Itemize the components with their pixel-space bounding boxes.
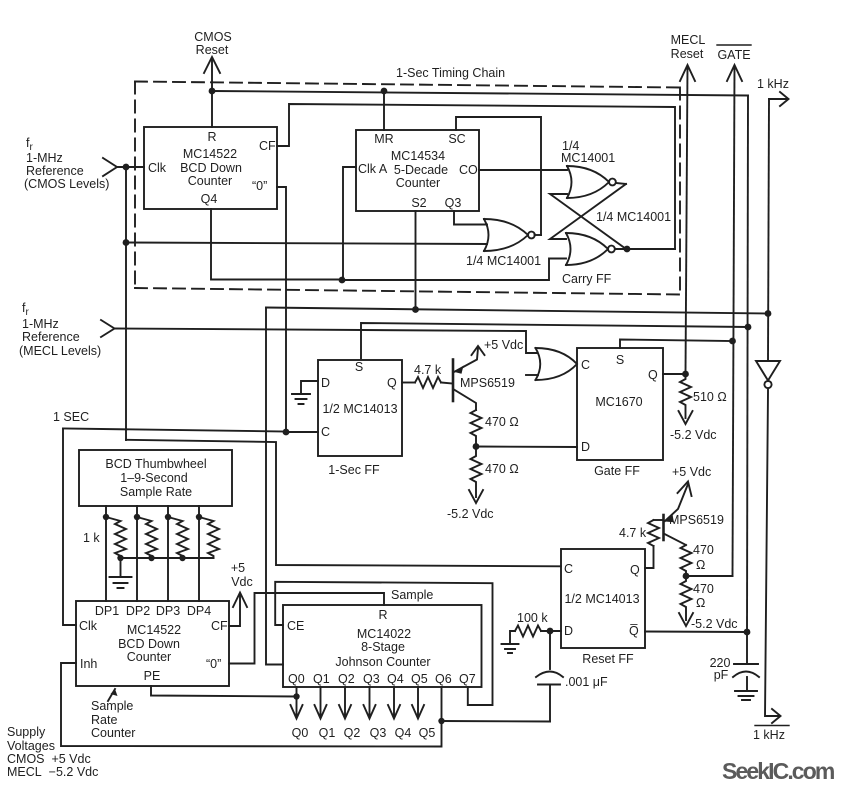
svg-text:Q4: Q4 xyxy=(395,726,412,740)
svg-text:Q: Q xyxy=(630,563,640,577)
svg-text:S2: S2 xyxy=(411,196,426,210)
svg-text:Q7: Q7 xyxy=(459,672,476,686)
svg-text:Vdc: Vdc xyxy=(231,575,253,589)
wire thumbwheel DP2 xyxy=(136,506,138,601)
svg-text:Clk A: Clk A xyxy=(358,162,388,176)
svg-text:Ω: Ω xyxy=(696,596,705,610)
node carry FF output xyxy=(624,246,631,253)
transistor Q2 collector xyxy=(665,534,687,545)
node bus R1 xyxy=(117,555,123,561)
transistor Q2 emitter with +5 arrow xyxy=(665,484,688,521)
svg-text:Q5: Q5 xyxy=(411,672,428,686)
resistor R3 470 ohm lower xyxy=(471,447,482,498)
wire output arrow Q1 xyxy=(315,687,327,719)
svg-text:Johnson Counter: Johnson Counter xyxy=(335,655,430,669)
svg-text:Supply: Supply xyxy=(7,725,46,739)
transistor Q1 MPS6519 base bar xyxy=(452,360,455,402)
svg-text:Gate FF: Gate FF xyxy=(594,464,640,478)
wire Q6 node to .001uF xyxy=(442,720,551,723)
wire GATE arrowhead xyxy=(727,65,742,81)
node DP4 tap xyxy=(196,514,202,520)
svg-text:MC14522: MC14522 xyxy=(183,147,237,161)
node gate2 line tap xyxy=(123,239,130,246)
svg-text:Q3: Q3 xyxy=(370,726,387,740)
wire gate1 output xyxy=(616,183,626,184)
svg-text:1/4 MC14001: 1/4 MC14001 xyxy=(466,254,541,268)
svg-text:C: C xyxy=(321,425,330,439)
svg-text:Q3: Q3 xyxy=(363,672,380,686)
resistor R8 470 ohm lower xyxy=(681,576,692,620)
svg-text:Q4: Q4 xyxy=(201,192,218,206)
svg-text:D: D xyxy=(321,376,330,390)
node 100k D .001uF xyxy=(547,628,554,635)
wire 1 kHz vertical to inverter xyxy=(768,99,769,361)
svg-text:C: C xyxy=(581,358,590,372)
svg-text:470 Ω: 470 Ω xyxy=(485,462,519,476)
wire long line to gate2 lower input xyxy=(126,243,487,245)
wire 4.7k to base xyxy=(441,383,452,384)
svg-text:MECL −5.2 Vdc: MECL −5.2 Vdc xyxy=(7,765,98,779)
wire node line A S2 to 1kHz tap xyxy=(266,308,768,314)
node 470 divider D xyxy=(473,443,480,450)
wire output arrow Q5 xyxy=(412,687,424,719)
arrowhead sample rate label xyxy=(111,689,118,696)
wire 1 kHz bottom arrowhead xyxy=(772,709,781,723)
node S line reset net xyxy=(745,324,752,331)
IC U3 1/2 MC14013 1-Sec FF box xyxy=(318,360,402,456)
resistor R1k-1 1 k xyxy=(106,517,126,558)
svg-text:CF: CF xyxy=(259,139,276,153)
svg-text:Sample: Sample xyxy=(91,699,133,713)
node DP3 tap xyxy=(165,514,171,520)
label arrow sample rate counter xyxy=(108,689,115,701)
svg-text:Q2: Q2 xyxy=(344,726,361,740)
wire 0 output to R of MC14022 xyxy=(229,593,384,664)
svg-text:Q̅: Q̅ xyxy=(629,624,639,638)
NOR gate G1 1/4 MC14001 top xyxy=(567,166,572,198)
ground symbol at 100k xyxy=(502,644,519,653)
wire cross couple gate1 out to gate3 in xyxy=(550,184,626,239)
capacitor C1 .001 uF xyxy=(549,631,551,669)
wire divider node to GATE vertical xyxy=(686,575,733,577)
wire CF to +5 Vdc arrow xyxy=(229,594,240,626)
svg-text:S: S xyxy=(616,353,624,367)
wire 1 SEC down to Clk xyxy=(63,429,76,626)
wire OR gate lower input stub xyxy=(526,374,538,376)
node Q MC1670 510 xyxy=(682,371,689,378)
svg-text:Reset: Reset xyxy=(671,47,704,61)
wire output arrow Q2 xyxy=(339,687,351,719)
svg-text:MPS6519: MPS6519 xyxy=(460,376,515,390)
svg-text:C: C xyxy=(564,562,573,576)
svg-text:+5 Vdc: +5 Vdc xyxy=(672,465,711,479)
wire ground to 100k xyxy=(510,631,515,644)
wire R pin to reset line xyxy=(211,91,213,127)
wire thumbwheel DP4 xyxy=(198,506,200,601)
wire bus to ground xyxy=(120,558,122,576)
IC U1 MC14522 BCD Down Counter box xyxy=(144,127,277,209)
wire CMOS reset arrowhead xyxy=(204,57,220,73)
svg-text:1 SEC: 1 SEC xyxy=(53,410,89,424)
svg-text:CMOS +5 Vdc: CMOS +5 Vdc xyxy=(7,752,91,766)
svg-text:Q3: Q3 xyxy=(445,196,462,210)
node GATE S MC1670 xyxy=(729,338,736,345)
svg-text:Q1: Q1 xyxy=(319,726,336,740)
svg-text:CE: CE xyxy=(287,619,304,633)
svg-text:510 Ω: 510 Ω xyxy=(693,390,727,404)
svg-text:“0”: “0” xyxy=(252,179,267,193)
svg-text:DP1: DP1 xyxy=(95,604,119,618)
wire 4.7k to Q pin xyxy=(645,546,654,568)
svg-text:Q0: Q0 xyxy=(292,726,309,740)
resistor R1k-4 1 k xyxy=(199,517,219,558)
resistor R1k-2 1 k xyxy=(137,517,157,558)
svg-text:Clk: Clk xyxy=(148,161,167,175)
svg-text:Counter: Counter xyxy=(188,174,232,188)
node Q0 PE xyxy=(293,693,299,699)
wire fr CMOS input fork xyxy=(103,158,117,176)
wire MECL jog down to Reset FF C xyxy=(126,440,561,567)
wire 0 pin down to node xyxy=(277,187,286,432)
node Q4 ClkA junction xyxy=(339,277,346,284)
node R reset xyxy=(209,88,216,95)
wire fr CMOS to Clk pin xyxy=(117,166,144,168)
svg-text:(MECL Levels): (MECL Levels) xyxy=(19,344,101,358)
svg-text:1-Sec FF: 1-Sec FF xyxy=(328,463,380,477)
wire SC up and right to gate2 output xyxy=(456,117,541,235)
inverter U5 triangle xyxy=(756,361,780,381)
NOR gate G3 1/4 MC14001 Carry FF xyxy=(566,233,571,265)
svg-text:DP4: DP4 xyxy=(187,604,211,618)
resistor R1k-3 1 k xyxy=(168,517,188,558)
wire Q-bar to right vertical xyxy=(645,631,747,634)
ground symbol at 1-Sec FF D xyxy=(292,394,310,404)
wire resistor bottom bus xyxy=(121,557,214,559)
svg-text:MC14522: MC14522 xyxy=(127,623,181,637)
svg-text:BCD Down: BCD Down xyxy=(118,637,180,651)
svg-text:1/4 MC14001: 1/4 MC14001 xyxy=(596,210,671,224)
svg-text:BCD Thumbwheel: BCD Thumbwheel xyxy=(105,457,206,471)
svg-text:MC14022: MC14022 xyxy=(357,627,411,641)
wire MC1670 S to GATE line xyxy=(620,340,733,349)
inverter U5 bubble xyxy=(764,381,771,388)
svg-text:BCD Down: BCD Down xyxy=(180,161,242,175)
wire line A down to Johnson C xyxy=(266,308,283,665)
wire -5.2 Vdc arrow below R3 xyxy=(469,490,483,503)
IC U2 MC14534 5-Decade Counter box xyxy=(356,130,479,211)
dashed box 1-Sec Timing Chain xyxy=(135,82,680,88)
svg-text:Clk: Clk xyxy=(79,619,98,633)
svg-text:Q: Q xyxy=(648,368,658,382)
svg-text:1 kHz: 1 kHz xyxy=(757,77,789,91)
wire PE down to Q0 xyxy=(151,686,297,697)
wire Q4 down and right xyxy=(211,209,342,280)
node bus R2 xyxy=(148,555,154,561)
ground symbol below 1k bank xyxy=(110,577,132,588)
svg-text:Reference: Reference xyxy=(26,164,84,178)
wire 1 SEC line xyxy=(63,429,286,432)
IC U8 1/2 MC14013 Reset FF box xyxy=(561,549,645,648)
svg-text:SeekIC.com: SeekIC.com xyxy=(722,758,835,784)
svg-text:Inh: Inh xyxy=(80,657,97,671)
svg-text:MR: MR xyxy=(374,132,393,146)
svg-text:Voltages: Voltages xyxy=(7,739,55,753)
svg-text:Sample Rate: Sample Rate xyxy=(120,485,192,499)
wire 100k to D pin xyxy=(541,630,561,632)
svg-text:Reset: Reset xyxy=(196,43,229,57)
resistor R1 4.7 k horizontal xyxy=(415,377,441,388)
wire Sample loop Q7 to CE xyxy=(275,582,492,705)
IC U7 MC14022 Johnson Counter box xyxy=(283,605,482,687)
resistor R7 470 ohm upper xyxy=(681,545,692,576)
wire MECL Reset vertical xyxy=(686,66,688,374)
svg-text:“0”: “0” xyxy=(206,657,221,671)
wire CMOS reset horizontal line xyxy=(212,91,748,96)
svg-text:MC14001: MC14001 xyxy=(561,151,615,165)
svg-text:1-MHz: 1-MHz xyxy=(26,151,63,165)
wire -5.2 Vdc arrow below R8 xyxy=(679,613,693,626)
transistor Q1 collector xyxy=(454,390,476,411)
svg-text:5-Decade: 5-Decade xyxy=(394,163,448,177)
label GATE overline xyxy=(717,44,751,46)
wire 4.7k top to base xyxy=(654,519,664,521)
svg-text:DP3: DP3 xyxy=(156,604,180,618)
transistor Q2 MPS6519 base bar xyxy=(662,515,665,540)
svg-text:1–9-Second: 1–9-Second xyxy=(120,471,187,485)
wire GATE vertical xyxy=(733,66,735,576)
wire thumbwheel DP1 xyxy=(105,506,107,601)
wire MR pin up xyxy=(383,91,385,130)
wire fr CMOS vertical down xyxy=(125,167,127,440)
svg-text:470: 470 xyxy=(693,543,714,557)
wire C input 1-Sec FF xyxy=(286,431,318,433)
wire fr MECL line to OR gate xyxy=(115,329,538,354)
svg-text:R: R xyxy=(207,130,216,144)
svg-text:470: 470 xyxy=(693,582,714,596)
svg-text:Counter: Counter xyxy=(91,726,135,740)
svg-text:Q0: Q0 xyxy=(288,672,305,686)
wire output arrow Q0 xyxy=(291,687,303,719)
svg-text:Q5: Q5 xyxy=(419,726,436,740)
svg-text:MC1670: MC1670 xyxy=(595,395,642,409)
wire thumbwheel DP3 xyxy=(167,506,169,601)
wire S2 down to node line xyxy=(415,211,417,310)
svg-text:4.7 k: 4.7 k xyxy=(619,526,647,540)
svg-text:Q: Q xyxy=(387,376,397,390)
wire CO to gate1 input xyxy=(479,169,567,171)
IC U4 MC1670 Gate FF box xyxy=(577,348,663,460)
svg-text:+5: +5 xyxy=(231,561,245,575)
svg-text:Reset FF: Reset FF xyxy=(582,652,634,666)
svg-text:(CMOS Levels): (CMOS Levels) xyxy=(24,177,109,191)
resistor R6 4.7 k vertical xyxy=(648,520,659,546)
wire Q6 down xyxy=(441,687,443,721)
IC U6 MC14522 Sample Rate Counter box xyxy=(76,601,229,686)
node Qbar 220pF xyxy=(744,629,751,636)
svg-text:1 kHz: 1 kHz xyxy=(753,728,785,742)
resistor R2 470 ohm upper xyxy=(471,410,482,446)
wire fr MECL input fork xyxy=(101,320,115,337)
wire output arrow Q4 xyxy=(388,687,400,719)
node S2 tap xyxy=(412,306,419,313)
node MR reset xyxy=(381,88,388,95)
svg-text:Sample: Sample xyxy=(391,588,433,602)
wire Inh down and right to Q6 net xyxy=(61,663,442,747)
svg-text:S: S xyxy=(355,360,363,374)
svg-text:MPS6519: MPS6519 xyxy=(669,513,724,527)
svg-text:Carry FF: Carry FF xyxy=(562,272,612,286)
wire Q pin to 4.7k xyxy=(402,382,415,384)
svg-text:Rate: Rate xyxy=(91,713,117,727)
svg-text:R: R xyxy=(378,608,387,622)
node DP1 tap xyxy=(103,514,109,520)
wire output arrow Q3 xyxy=(364,687,376,719)
resistor R5 100 k xyxy=(515,626,541,637)
svg-text:1-MHz: 1-MHz xyxy=(22,317,59,331)
svg-text:1/2 MC14013: 1/2 MC14013 xyxy=(322,402,397,416)
NOR gate G2 1/4 MC14001 left xyxy=(484,219,489,251)
svg-text:D: D xyxy=(581,440,590,454)
svg-text:-5.2 Vdc: -5.2 Vdc xyxy=(691,617,738,631)
wire CMOS reset arrow shaft xyxy=(211,60,213,91)
svg-text:SC: SC xyxy=(448,132,465,146)
BCD Thumbwheel box xyxy=(79,450,232,506)
svg-text:D: D xyxy=(564,624,573,638)
wire carry line to gate3 lower input xyxy=(342,259,566,281)
node bus R3 xyxy=(179,555,185,561)
node 0 C 1SEC xyxy=(283,429,290,436)
wire cross couple gate3 out to gate1 in xyxy=(550,194,626,249)
svg-text:Q6: Q6 xyxy=(435,672,452,686)
svg-text:Q4: Q4 xyxy=(387,672,404,686)
capacitor C2 220 pF xyxy=(746,632,748,664)
svg-text:MC14534: MC14534 xyxy=(391,149,445,163)
svg-text:pF: pF xyxy=(714,668,729,682)
svg-text:.001 μF: .001 μF xyxy=(565,675,608,689)
svg-text:Counter: Counter xyxy=(396,176,440,190)
svg-text:1 k: 1 k xyxy=(83,531,100,545)
svg-text:+5 Vdc: +5 Vdc xyxy=(484,338,523,352)
wire Clk A left and down xyxy=(343,167,356,280)
svg-text:-5.2 Vdc: -5.2 Vdc xyxy=(670,428,717,442)
wire right reset vertical x748 xyxy=(747,96,748,633)
node T2 divider xyxy=(683,573,690,580)
svg-text:Counter: Counter xyxy=(127,650,171,664)
svg-text:CMOS: CMOS xyxy=(194,30,232,44)
label 1 kHz bottom overline xyxy=(755,725,789,727)
svg-text:Reference: Reference xyxy=(22,330,80,344)
node DP2 tap xyxy=(134,514,140,520)
svg-text:Ω: Ω xyxy=(696,558,705,572)
svg-text:Q2: Q2 xyxy=(338,672,355,686)
svg-text:470 Ω: 470 Ω xyxy=(485,415,519,429)
svg-text:Q1: Q1 xyxy=(313,672,330,686)
wire D pin to ground xyxy=(301,381,318,393)
svg-text:1-Sec Timing Chain: 1-Sec Timing Chain xyxy=(396,66,505,80)
wire CF to carry loop up xyxy=(277,104,675,249)
wire gate2 output to SC riser xyxy=(535,234,542,236)
node Q6 Inh xyxy=(438,718,444,724)
wire -5.2 Vdc arrow below R4 xyxy=(679,411,693,424)
transistor Q1 emitter with +5 arrow xyxy=(454,348,478,372)
wire Q3 to gate2 upper input xyxy=(454,211,487,225)
svg-text:DP2: DP2 xyxy=(126,604,150,618)
wire gate3 output to loop xyxy=(615,248,675,250)
node fr CMOS input xyxy=(123,164,130,171)
svg-text:GATE: GATE xyxy=(717,48,750,62)
wire S pin 1-Sec FF to reset net xyxy=(361,323,748,358)
svg-text:CF: CF xyxy=(211,619,228,633)
wire 1 kHz top arrow xyxy=(769,92,789,106)
wire MC1670 Q output xyxy=(663,373,686,375)
svg-text:CO: CO xyxy=(459,163,478,177)
svg-text:8-Stage: 8-Stage xyxy=(361,640,405,654)
OR gate G4 before MC1670 C xyxy=(536,348,541,380)
wire 470 junction to MC1670 D xyxy=(476,446,577,449)
svg-text:PE: PE xyxy=(144,669,161,683)
node 1kHz tap xyxy=(765,310,772,317)
svg-text:MECL: MECL xyxy=(671,33,706,47)
svg-text:100 k: 100 k xyxy=(517,611,548,625)
wire inverter output to 1 kHz bottom xyxy=(765,389,779,717)
svg-text:4.7 k: 4.7 k xyxy=(414,363,442,377)
svg-text:1/2 MC14013: 1/2 MC14013 xyxy=(564,592,639,606)
wire MECL Reset arrowhead xyxy=(680,65,695,81)
resistor R4 510 ohm xyxy=(680,374,691,418)
ground symbol below 220 pF xyxy=(735,691,757,700)
svg-text:-5.2 Vdc: -5.2 Vdc xyxy=(447,507,494,521)
